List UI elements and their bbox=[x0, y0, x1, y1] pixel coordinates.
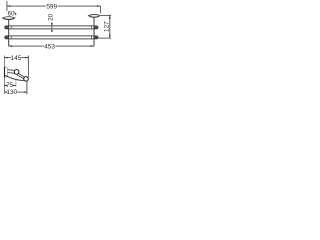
svg-text:127: 127 bbox=[103, 21, 110, 32]
svg-text:453: 453 bbox=[44, 43, 55, 50]
svg-text:599: 599 bbox=[46, 4, 57, 11]
svg-text:130: 130 bbox=[6, 89, 17, 96]
svg-text:75: 75 bbox=[6, 82, 14, 89]
svg-text:145: 145 bbox=[11, 55, 22, 62]
svg-text:20: 20 bbox=[48, 13, 55, 21]
